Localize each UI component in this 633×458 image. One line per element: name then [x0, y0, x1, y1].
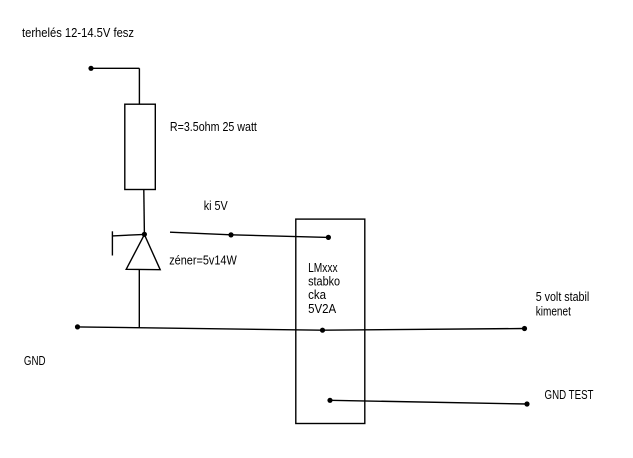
- svg-text:ki 5V: ki 5V: [204, 198, 228, 213]
- svg-text:GND TEST: GND TEST: [545, 387, 594, 402]
- svg-text:zéner=5v14W: zéner=5v14W: [169, 252, 237, 267]
- svg-text:kimenet: kimenet: [536, 303, 571, 318]
- svg-text:5 volt stabil: 5 volt stabil: [536, 289, 590, 304]
- svg-text:5V2A: 5V2A: [308, 301, 336, 316]
- svg-text:R=3.5ohm 25 watt: R=3.5ohm 25 watt: [170, 119, 257, 134]
- svg-text:GND: GND: [24, 353, 46, 368]
- svg-text:terhelés 12-14.5V fesz: terhelés 12-14.5V fesz: [22, 25, 134, 40]
